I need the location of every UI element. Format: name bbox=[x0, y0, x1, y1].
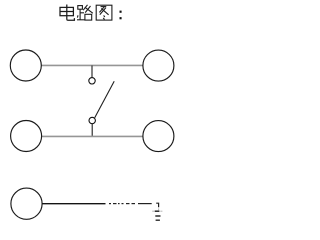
title text 路 bbox=[77, 5, 93, 20]
wire W1 top horizontal bbox=[41, 64, 143, 66]
ground bar 1 (widest, faint ends) bbox=[152, 210, 154, 212]
circle C5 bottom-left terminal bbox=[11, 188, 42, 219]
switch S1 lower contact circle bbox=[89, 117, 95, 123]
circle C4 middle-right terminal bbox=[143, 121, 174, 152]
title text colon bbox=[120, 11, 122, 20]
wire W2 middle horizontal bbox=[42, 135, 144, 137]
ground lead hook bbox=[156, 203, 158, 207]
title text 电 (of 电路图:) bbox=[60, 5, 74, 21]
circle C2 top-right terminal bbox=[143, 50, 174, 81]
wire W3 dash-dot segment bbox=[109, 203, 152, 205]
switch S1 lower stub bbox=[91, 124, 93, 137]
circle C3 middle-left terminal bbox=[11, 121, 42, 152]
switch S1 upper contact circle bbox=[89, 78, 95, 84]
switch S1 upper stub bbox=[91, 66, 93, 78]
ground bar 3 bbox=[156, 219, 160, 221]
title text 图 bbox=[96, 5, 112, 20]
circle C1 top-left terminal bbox=[10, 50, 41, 81]
wire W3 bottom solid segment bbox=[42, 203, 105, 205]
switch S1 lever bbox=[95, 81, 115, 118]
ground bar 2 bbox=[155, 215, 160, 217]
